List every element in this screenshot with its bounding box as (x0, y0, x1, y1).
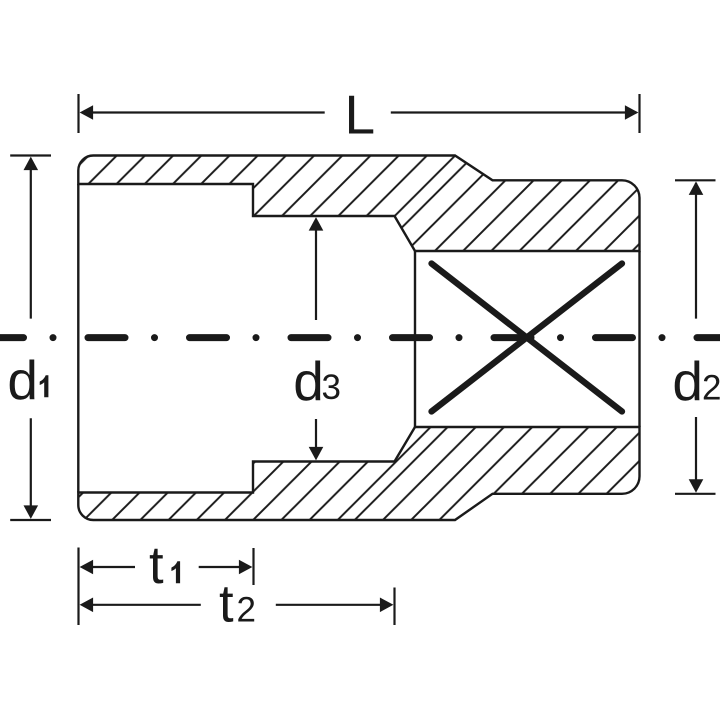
svg-text:d: d (672, 350, 703, 412)
svg-text:L: L (345, 84, 376, 146)
svg-text:t: t (149, 536, 164, 595)
svg-text:t: t (219, 575, 234, 634)
svg-text:d: d (7, 349, 38, 411)
svg-text:3: 3 (322, 368, 341, 407)
svg-text:2: 2 (237, 591, 256, 630)
svg-text:2: 2 (702, 369, 720, 408)
svg-text:d: d (293, 350, 324, 412)
